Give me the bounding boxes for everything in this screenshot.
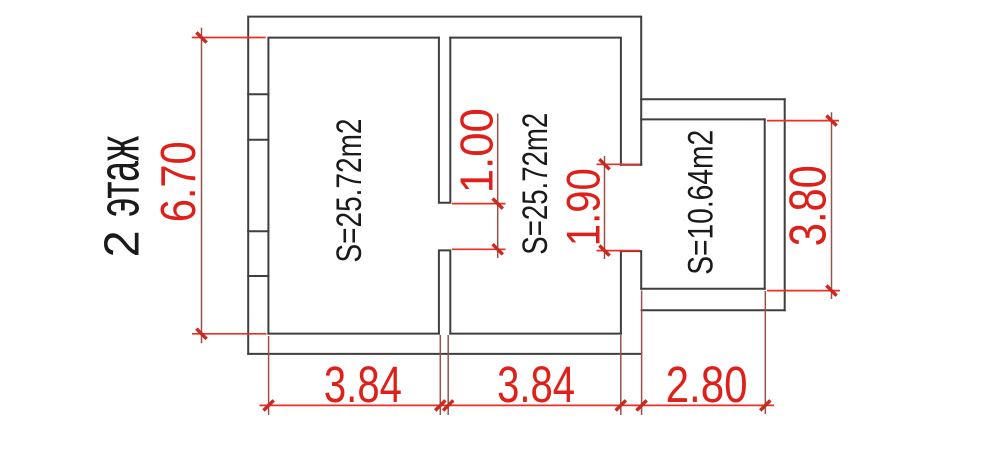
ext line 1.90 top [597,163,640,165]
ext line 3.80 bottom [767,290,840,292]
svg-text:S=25.72m2: S=25.72m2 [330,119,369,263]
wire inner bottom wall line right segment [450,333,621,335]
small room right wall outer line [784,99,786,310]
svg-text:3.84: 3.84 [324,356,402,413]
wire inner wall top-right segment and right vertical [450,38,621,165]
svg-text:6.70: 6.70 [152,141,206,222]
wire inner bottom wall line left segment [268,333,439,335]
wire outer bottom wall line [248,353,641,355]
dim line 6.70 [201,28,203,344]
svg-text:S=25.72m2: S=25.72m2 [516,113,555,255]
small room bottom wall lower line [642,309,785,311]
tick 6.70 bottom [196,329,206,339]
ext line 1.00 bottom [452,248,506,250]
small room bottom wall upper line [641,288,765,290]
window division 1 left wall [248,93,268,95]
horizontal red lines bright [192,38,840,406]
tick 3.80 top [826,116,836,126]
tick 3.80 bottom [826,286,836,296]
right wall lower segment [621,251,641,334]
ext line bottom dim at x=268.6 [268,336,270,415]
ext line bottom dim at x=765.3 [764,291,766,414]
wire outer wall outline of main block [248,17,641,354]
dim line 3.80 [831,112,833,299]
ext line 6.70 bottom [192,333,267,335]
tick bottom dim x=440.3 [435,400,445,410]
ext line 1.90 bottom [597,250,640,252]
svg-text:этаж: этаж [86,136,151,217]
tick 1.90 top [599,159,609,169]
svg-text:S=10.64m2: S=10.64m2 [681,130,720,275]
tick bottom dim x=268.6 [264,400,274,410]
tick marks [196,32,836,410]
walls [248,17,785,354]
svg-text:2: 2 [95,230,149,257]
tick 1.00 top [493,199,503,209]
svg-text:3.84: 3.84 [497,356,575,413]
window division 4 left wall [248,275,268,277]
wire inner wall left vertical and top-left segment [268,38,439,334]
small room top wall lower line [641,118,765,120]
ext line bottom dim at x=440.3 [439,335,441,415]
dim line 1.90 [604,156,606,259]
svg-text:1.90: 1.90 [556,168,609,246]
svg-text:2.80: 2.80 [666,356,748,413]
ext line 6.70 top [192,37,266,39]
ext line 3.80 top [767,120,839,122]
partition wall upper segment [439,38,450,203]
dimension extension lines muted red vertical [202,28,832,415]
small room right wall inner line [764,119,766,288]
svg-text:1.00: 1.00 [450,108,502,193]
wire opening top cap right wall [621,164,641,166]
ext line bottom dim at x=641.6 [641,291,643,416]
tick bottom dim x=765.3 [760,400,770,410]
tick bottom dim x=641.6 [637,400,647,410]
ext line bottom dim at x=620.8 [620,335,622,415]
ext line bottom dim at x=448.2 [447,335,449,415]
bottom dimension line [260,404,775,406]
svg-text:3.80: 3.80 [778,165,836,246]
tick bottom dim x=448.2 [443,400,453,410]
window division 2 left wall [248,139,268,141]
partition wall lower segment [439,250,450,333]
ext line 1.00 top [452,203,506,205]
tick 6.70 top [196,32,206,42]
window division 3 left wall [248,230,268,232]
dim line 1.00 [497,114,499,259]
tick bottom dim x=620.8 [616,400,626,410]
tick 1.00 bottom [493,244,503,254]
tick 1.90 bottom [599,246,609,256]
small room top wall upper line [641,98,785,100]
